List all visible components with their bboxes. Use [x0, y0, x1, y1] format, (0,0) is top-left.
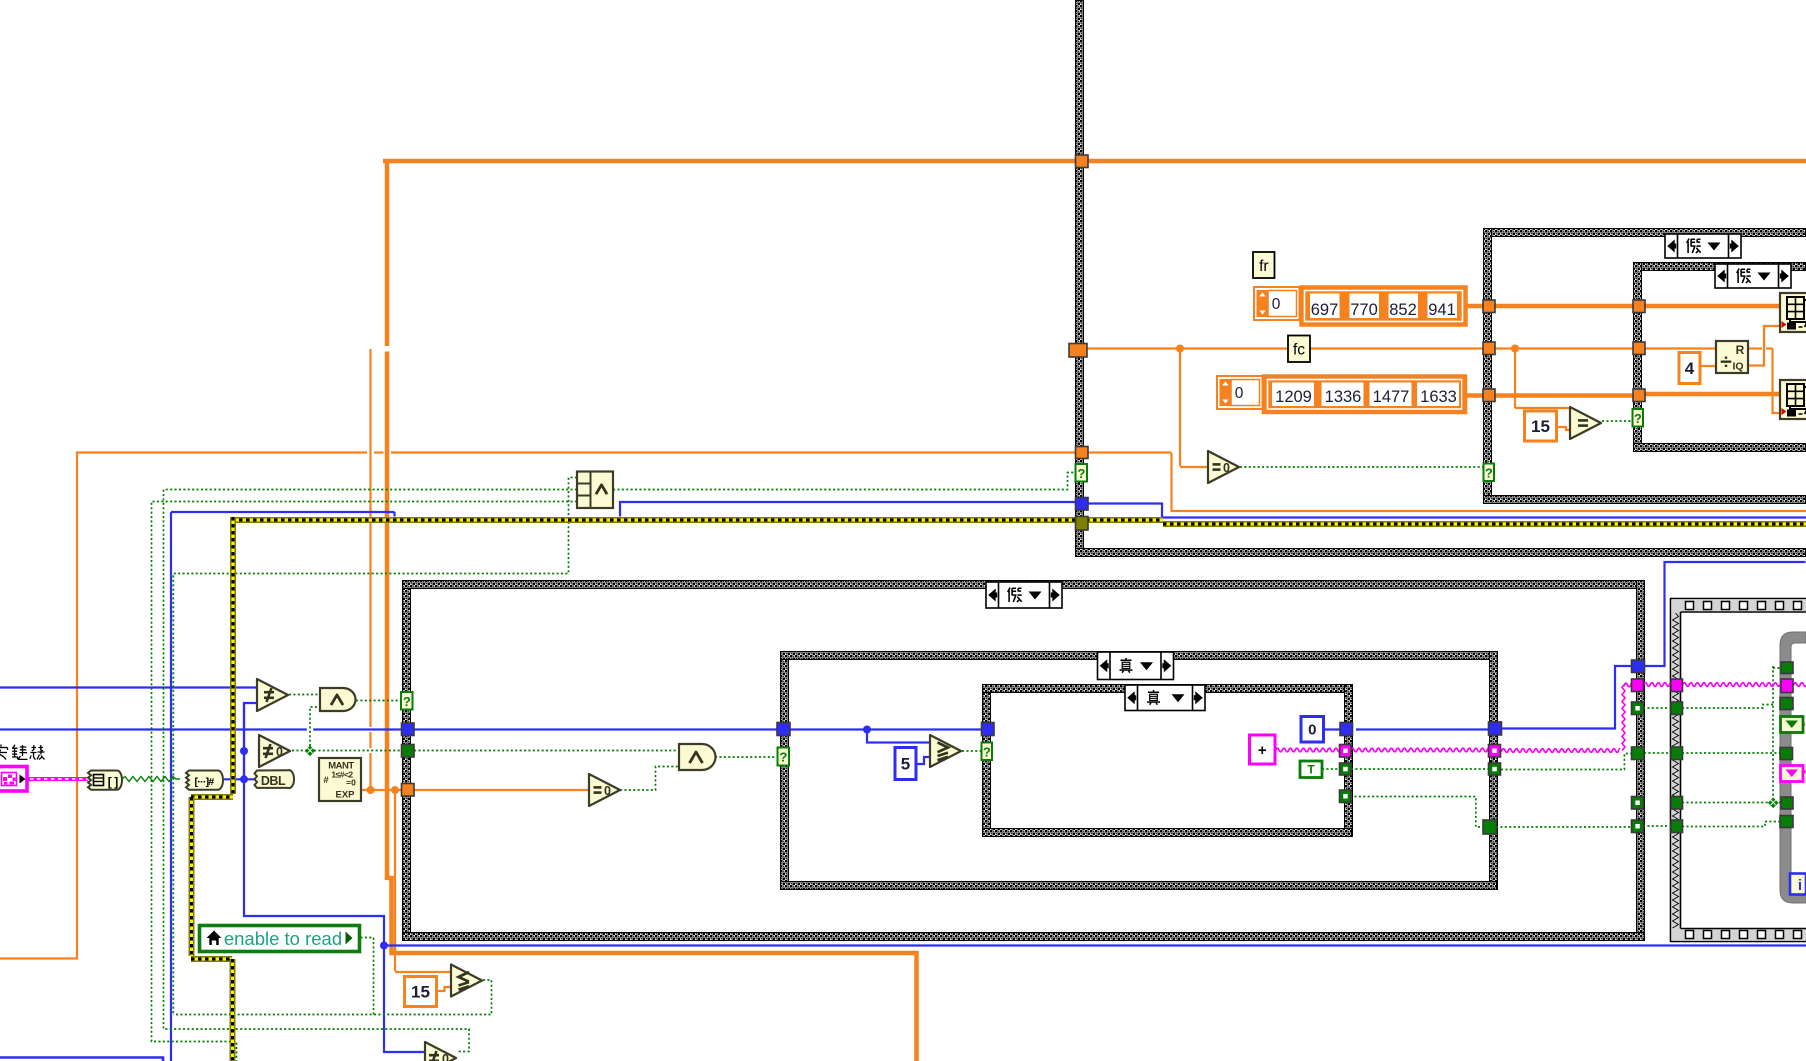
svg-text:697: 697	[1311, 301, 1339, 319]
wire green not-equal output	[289, 694, 320, 696]
svg-text:?: ?	[1077, 466, 1085, 481]
tunnel green sequence 2	[1671, 747, 1683, 760]
wire blue inside case D to E	[414, 728, 780, 730]
svg-text:enable to read: enable to read	[224, 928, 342, 949]
node and-gate 1	[320, 688, 355, 711]
wire blue inside case E	[790, 728, 982, 730]
array fr index	[1254, 287, 1300, 320]
svg-text:852: 852	[1389, 301, 1417, 319]
node not-equal-zero	[259, 735, 290, 767]
wire blue clipped control box bottom-left	[0, 1058, 163, 1061]
svg-text:fc: fc	[1293, 342, 1305, 359]
case structure A (top) left border	[1076, 1, 1084, 549]
wire green sequence net vertical	[1682, 666, 1781, 803]
node compound arithmetic	[577, 472, 613, 509]
svg-text:1209: 1209	[1275, 388, 1312, 406]
wire orange fc array inside B	[1495, 393, 1633, 398]
svg-text:÷: ÷	[1720, 351, 1732, 374]
control cluster terminal	[0, 767, 27, 792]
wire green not-equal-zero bottom output	[456, 1051, 458, 1053]
wire green while icon stub	[1803, 724, 1806, 726]
wire orange IQ output	[1748, 326, 1781, 366]
node equal-zero top	[1208, 451, 1239, 483]
node equals case B	[1570, 407, 1601, 439]
array fr data box	[1302, 288, 1466, 325]
array fr element 697	[1308, 292, 1342, 321]
tunnel pink case F right	[1340, 745, 1352, 758]
svg-text:[ ]: [ ]	[108, 775, 118, 789]
selector case F true	[1125, 685, 1205, 711]
wire blue shift-register loop bottom	[244, 703, 425, 1052]
node mantissa-exponent	[319, 758, 361, 801]
wire blue array-to-number to DBL	[224, 778, 256, 780]
node index array 2	[1780, 380, 1806, 419]
node to-double DBL	[255, 770, 295, 788]
tunnel blue case D right	[1632, 660, 1645, 673]
svg-text:0: 0	[276, 745, 283, 759]
tunnel orange case B fr	[1483, 300, 1495, 313]
wire green compound input3 loop	[152, 502, 578, 1061]
tunnel blue case A	[1076, 498, 1089, 511]
flat sequence structure frame	[1671, 599, 1806, 942]
svg-text:[···]#: [···]#	[194, 776, 214, 788]
tunnel green case E right	[1489, 763, 1501, 775]
wire blue emerging to tunnel A	[620, 502, 1075, 517]
tunnel selector case C	[1633, 409, 1644, 427]
array fc element 1477	[1369, 382, 1413, 408]
array fc element 1336	[1321, 382, 1365, 408]
tunnel orange case C fc	[1633, 342, 1645, 355]
node and-gate 2	[679, 744, 716, 770]
wire blue right of tunnel A	[1088, 504, 1806, 518]
wire green tunnel D to and-gate2	[414, 750, 679, 752]
tunnel blue case D left	[402, 723, 415, 736]
tunnel orange case C fr	[1633, 300, 1645, 313]
tunnel green case F right1	[1340, 763, 1352, 775]
wire green not-equal-zero output	[292, 750, 402, 752]
tunnel green case E filled	[1483, 820, 1497, 834]
wire error cluster jog2	[191, 956, 232, 962]
svg-text:#: #	[323, 775, 329, 786]
tunnel green case D left	[402, 745, 415, 758]
node less-equal bottom	[451, 965, 482, 997]
tunnel selector case E	[778, 748, 790, 766]
case structure E (level2) border	[781, 652, 789, 890]
wire blue 0 constant to tunnels	[1324, 728, 1344, 730]
node greater-equal	[930, 735, 961, 767]
tunnel pink case D right	[1632, 679, 1644, 692]
svg-text:15: 15	[411, 983, 430, 1002]
constant 0	[1301, 717, 1324, 743]
wire orange main jog-down segment	[387, 878, 917, 1061]
array fc data box	[1264, 377, 1465, 413]
while loop border	[1780, 632, 1806, 903]
wire orange constant 4 to divide	[1700, 365, 1716, 367]
tunnel green sequence 3	[1671, 797, 1683, 810]
wire error cluster jog	[191, 794, 233, 800]
svg-text:0: 0	[1308, 722, 1316, 739]
wire orange fr array inside B	[1495, 304, 1633, 309]
tunnel orange case B fc	[1483, 342, 1495, 355]
case structure B (fr/fc) top border	[1484, 229, 1806, 237]
case structure C bottom border	[1634, 444, 1806, 452]
wire orange EXP output	[361, 789, 402, 791]
local variable enable-to-read	[200, 926, 360, 952]
wire blue branch to not-equal lower input	[244, 703, 258, 779]
wire pink string vertical riser	[1622, 685, 1625, 751]
svg-text:1633: 1633	[1420, 388, 1457, 406]
wire orange vertical to EXP junction	[369, 349, 371, 727]
label text anjiancu	[0, 745, 45, 760]
svg-text:?: ?	[403, 694, 411, 709]
node not-equal-zero bottom	[425, 1042, 456, 1061]
wire orange EXP inside case D	[414, 789, 589, 791]
wire pink control to cluster-to-array	[27, 777, 88, 781]
wire error cluster main right	[1163, 521, 1806, 527]
svg-text:1477: 1477	[1373, 388, 1410, 406]
selector case D false	[986, 582, 1062, 608]
svg-text:T: T	[1307, 763, 1315, 777]
label fc	[1288, 336, 1310, 363]
tunnel orange case C fc-array	[1633, 389, 1645, 402]
wire green compound input2 loop	[164, 490, 578, 1052]
wire green greater-equal output to selector F	[962, 750, 982, 752]
wire green equals output to selector C	[1602, 420, 1632, 422]
svg-text:+: +	[1258, 742, 1267, 759]
tunnel selector case D	[401, 692, 413, 710]
wire green level3 lower tunnel loop	[1350, 797, 1780, 828]
wire orange fc inside case C	[1645, 347, 1716, 349]
node index array 1	[1780, 293, 1806, 332]
wire orange fc	[1087, 347, 1483, 349]
svg-text:0: 0	[1223, 461, 1230, 475]
constant 15 case B	[1525, 411, 1557, 441]
tunnel orange case D left	[402, 784, 415, 797]
svg-text:0: 0	[1235, 385, 1244, 402]
terminal iteration i	[1790, 874, 1806, 895]
svg-text:1336: 1336	[1325, 388, 1362, 406]
wire green and-gate output to selector D	[356, 700, 401, 702]
svg-text:?: ?	[1634, 411, 1642, 426]
junction diamond green	[305, 746, 316, 757]
svg-text:?: ?	[983, 744, 991, 759]
wire orange fc array	[1465, 393, 1483, 398]
tunnel blue case F left	[982, 723, 995, 736]
svg-text:4: 4	[1685, 359, 1695, 378]
wire blue 5 to greater-equal	[916, 757, 931, 764]
case structure C (inner) top border	[1634, 263, 1806, 271]
wire blue case D to right edge	[1644, 562, 1806, 666]
array fc element 1633	[1416, 382, 1460, 408]
wire green junction up to and-gate	[307, 728, 313, 732]
svg-text:DBL: DBL	[261, 774, 286, 788]
selector case B false	[1715, 264, 1791, 288]
node not-equal	[257, 679, 288, 711]
wire orange fr array inside C	[1645, 304, 1780, 309]
node boolean-array-to-number	[186, 771, 223, 790]
svg-text:0: 0	[1272, 296, 1281, 313]
array fc index	[1217, 376, 1263, 409]
tunnel selector case B	[1484, 464, 1495, 482]
wire blue main long	[0, 728, 402, 730]
tunnel selector case F	[982, 743, 993, 761]
wire orange main horizontal	[383, 159, 1806, 164]
tunnel olive case A	[1076, 517, 1089, 531]
tunnel green sequence 4	[1671, 820, 1683, 833]
wire green compound input1 loop	[173, 478, 577, 1015]
array fr element 852	[1387, 292, 1421, 321]
wire error cluster main	[232, 517, 1163, 523]
wire green equal-zero output to and-gate2	[620, 767, 679, 791]
wire orange R output	[1748, 347, 1762, 349]
tunnel pink sequence	[1671, 679, 1683, 692]
case structure B bottom border	[1484, 496, 1806, 504]
tunnel green while 5	[1780, 816, 1793, 828]
wire orange fc inside case B	[1495, 347, 1633, 349]
tunnel orange case A lower	[1076, 447, 1089, 459]
node equal-zero middle	[589, 774, 620, 806]
tunnel green while 4	[1781, 797, 1793, 809]
array fr element 770	[1348, 292, 1382, 321]
constant 5	[895, 748, 916, 780]
node string plus	[1250, 735, 1276, 764]
icon while pink combo	[1781, 766, 1804, 782]
tunnel orange case A main	[1076, 155, 1089, 168]
tunnel orange case B fc-array	[1483, 389, 1495, 402]
case structure A (top) bottom border	[1076, 549, 1806, 557]
svg-text:5: 5	[901, 755, 910, 774]
svg-text:0: 0	[604, 784, 611, 798]
wire blue to not-equal top input	[0, 686, 258, 688]
svg-text:?: ?	[779, 750, 787, 765]
tunnel blue case F right	[1340, 723, 1353, 736]
case structure B left border	[1484, 229, 1492, 504]
icon while green combo	[1781, 717, 1804, 733]
tunnel blue case E left	[777, 723, 790, 736]
svg-text:i: i	[1798, 877, 1802, 894]
svg-text:770: 770	[1350, 301, 1378, 319]
tunnel orange fc entry	[1069, 344, 1087, 358]
wire pink string inside sequence	[1682, 683, 1781, 687]
tunnel blue case E right	[1489, 722, 1502, 735]
wire orange 15 to less-equal (bottom)	[437, 987, 451, 991]
tunnel green sequence 1	[1671, 702, 1683, 715]
svg-text:R: R	[1736, 343, 1745, 357]
wire green middle tunnels to sequence	[1643, 707, 1671, 709]
wire pink string to sequence	[1643, 683, 1671, 687]
tunnel green while 2	[1780, 698, 1793, 710]
wire green cluster-to-array zigzag	[122, 777, 180, 782]
tunnel selector case A	[1076, 464, 1088, 482]
node cluster-to-array	[88, 771, 122, 790]
wire pink string plus output	[1275, 748, 1340, 752]
tunnel green while 3	[1780, 748, 1793, 760]
wire green compound output to selector A	[613, 473, 1075, 490]
case structure F (level3) border	[983, 685, 991, 837]
tunnel green case D right2	[1632, 747, 1645, 760]
wire green equal-zero-A output to selector B	[1240, 466, 1484, 468]
node quotient-remainder	[1716, 341, 1748, 373]
constant T true	[1300, 761, 1322, 778]
wire green T constant to while tunnel	[1322, 753, 1780, 770]
selector case E true	[1098, 652, 1174, 680]
case structure C left border	[1634, 263, 1642, 452]
wire orange 15 to equals (case B)	[1557, 427, 1572, 430]
svg-text:fr: fr	[1259, 258, 1268, 275]
array fc element 1209	[1271, 382, 1315, 408]
wire error cluster vertical upper	[230, 517, 236, 794]
constant 4	[1679, 353, 1700, 384]
wire blue case E to case D border	[1501, 666, 1633, 729]
constant 15 bottom	[405, 977, 437, 1007]
wire blue under-case long	[384, 944, 1806, 946]
tunnel pink case E right	[1489, 745, 1501, 758]
tunnel green case D right4	[1632, 820, 1644, 833]
wire orange fr array	[1466, 304, 1483, 309]
tunnel green case D right3	[1632, 797, 1644, 810]
tunnel green case D right1	[1632, 702, 1644, 715]
svg-text:?: ?	[1485, 465, 1493, 480]
tunnel green case F right2	[1340, 790, 1352, 803]
wire orange left loop	[0, 453, 367, 959]
case structure D (middle) border	[403, 581, 411, 941]
wire orange fc array inside C	[1645, 392, 1780, 397]
wire pink while icon stub	[1803, 771, 1806, 774]
wire green less-equal loop to enable node	[173, 938, 491, 1015]
svg-text:EXP: EXP	[335, 790, 355, 801]
svg-text:0: 0	[442, 1052, 449, 1061]
wire pink string after while tunnel	[1793, 683, 1806, 687]
wire error cluster vertical middle	[189, 797, 195, 956]
wire error cluster vertical lower	[230, 959, 236, 1061]
wire blue left vertical with elbow	[170, 512, 172, 1061]
svg-text:15: 15	[1531, 417, 1550, 436]
wire orange main vertical	[385, 159, 390, 346]
selector case A false	[1665, 234, 1741, 258]
svg-text:IQ: IQ	[1732, 361, 1743, 373]
svg-text:=0: =0	[346, 778, 356, 788]
array fr element 941	[1426, 292, 1460, 321]
tunnel pink while	[1781, 679, 1793, 693]
label fr	[1253, 252, 1275, 278]
tunnel green while 1	[1781, 662, 1793, 674]
wire green and-gate2 output to selector E	[715, 756, 777, 758]
svg-text:941: 941	[1428, 301, 1456, 319]
